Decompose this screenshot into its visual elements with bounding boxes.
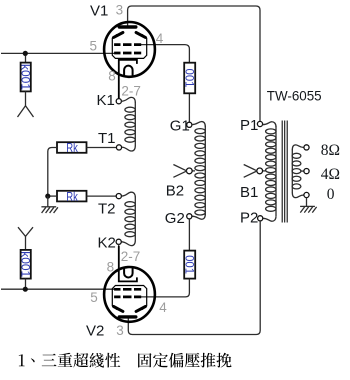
svg-text:2-7: 2-7	[121, 249, 141, 264]
node B1 tap terminal circle	[257, 168, 263, 174]
node K2 terminal circle	[116, 239, 121, 244]
svg-text:B2: B2	[166, 183, 184, 200]
inductor winding K1-T1	[121, 97, 135, 151]
wire Rk lower right lead to node T2	[87, 195, 117, 197]
svg-text:P2: P2	[240, 210, 258, 227]
node junction dot on V2 grid wire	[23, 287, 28, 292]
V2 beam plates	[114, 307, 146, 312]
node G2 terminal circle	[187, 214, 192, 219]
V1 cathode	[119, 60, 137, 99]
V2 plate (anode bar)	[119, 315, 136, 318]
ground (secondary 0 tap)	[300, 198, 317, 213]
op V1 tube envelope	[104, 22, 155, 77]
svg-text:001: 001	[182, 255, 196, 274]
transformer TW-6055 primary winding	[262, 122, 276, 221]
svg-text:G2: G2	[165, 210, 185, 227]
V1 heater	[124, 66, 133, 77]
V2 cathode	[119, 246, 137, 281]
V1 screen frame	[112, 34, 146, 58]
node T1 terminal circle	[116, 145, 121, 150]
svg-text:5: 5	[90, 290, 98, 305]
node secondary 0 terminal	[304, 192, 309, 197]
wire G2 down to resistor 100 lower	[188, 219, 190, 251]
resistor 100 (V1 screen stopper)	[182, 63, 196, 94]
node junction dot on V1 grid wire	[23, 51, 28, 56]
node T2 terminal circle	[116, 194, 121, 199]
svg-text:4Ω: 4Ω	[321, 166, 340, 183]
svg-text:2-7: 2-7	[121, 84, 141, 99]
wire Rk lower left lead to ground junction	[48, 195, 57, 197]
V2 grid dashes row pin4	[114, 296, 141, 299]
svg-text:4: 4	[159, 300, 167, 315]
svg-text:001: 001	[182, 69, 196, 88]
svg-text:Rk: Rk	[66, 190, 78, 204]
resistor Rk (lower cathode bias)	[57, 190, 87, 204]
V1 beam plates	[114, 33, 146, 38]
svg-text:k001: k001	[18, 251, 32, 277]
node B2 tap terminal circle	[186, 168, 192, 174]
svg-text:V1: V1	[90, 3, 108, 20]
resistor 100 (V2 screen stopper)	[182, 251, 196, 279]
node secondary 8 ohm terminal	[304, 145, 309, 150]
resistor 100k (upper bias resistor)	[18, 56, 32, 106]
transformer core	[282, 121, 287, 223]
wire Rk upper left lead down to ground junction	[48, 148, 57, 197]
svg-text:TW-6055: TW-6055	[267, 89, 322, 104]
arrow B1 tap pointer	[244, 165, 257, 178]
V2 grid dashes row pin5	[114, 288, 141, 291]
V1 grid dashes row pin5	[114, 52, 141, 55]
svg-text:K1: K1	[97, 92, 115, 109]
node secondary 4 ohm terminal	[304, 169, 309, 174]
V1 grid dashes row pin4	[114, 43, 141, 46]
V1 plate (anode bar)	[119, 25, 136, 28]
node K1 terminal circle	[116, 99, 121, 104]
wire Rk upper right lead to node T1	[87, 147, 117, 149]
svg-text:P1: P1	[240, 117, 258, 134]
svg-text:G1: G1	[170, 117, 190, 134]
svg-text:V2: V2	[86, 322, 104, 339]
arrow B2 tap pointer	[173, 165, 186, 178]
svg-text:Rk: Rk	[66, 141, 78, 155]
ground (below Rk junction)	[41, 196, 58, 213]
transformer secondary winding	[292, 145, 304, 198]
wire P2 to V2 plate pin3 (bottom rail)	[128, 221, 260, 335]
svg-text:8: 8	[107, 259, 115, 274]
op V2 tube envelope	[104, 267, 155, 322]
node G1 terminal circle	[187, 122, 192, 127]
svg-text:4: 4	[156, 31, 164, 46]
inductor winding G1-G2 with tap B2	[192, 122, 205, 220]
inductor winding T2-K2	[121, 192, 135, 245]
wire V1 plate pin3 to transformer P1 (top rail)	[128, 6, 260, 122]
node P2 terminal circle	[258, 216, 263, 221]
wire input grid V1 pin5 (left horizontal)	[1, 52, 115, 54]
svg-text:k001: k001	[18, 64, 32, 90]
node P1 terminal circle	[257, 121, 262, 126]
svg-text:T2: T2	[98, 201, 116, 218]
arrow to negative bias (lower)	[18, 227, 33, 236]
wire resistor to V2 pin4 screen	[141, 279, 190, 297]
wire K2 to V2 cathode	[118, 244, 120, 281]
wire K1 to V1 cathode	[118, 60, 120, 99]
svg-text:T1: T1	[98, 130, 116, 147]
svg-text:3: 3	[116, 323, 124, 338]
svg-text:5: 5	[90, 39, 98, 54]
svg-text:8: 8	[108, 69, 116, 84]
V2 screen frame	[112, 286, 146, 310]
resistor Rk (upper cathode bias)	[57, 141, 87, 155]
svg-text:K2: K2	[98, 234, 116, 251]
V2 heater	[124, 267, 133, 278]
svg-text:8Ω: 8Ω	[321, 142, 340, 159]
wire V1 pin4 screen to resistor 100	[141, 45, 190, 63]
wire input grid V2 pin5 (lower horizontal)	[1, 288, 115, 290]
wire V1 100 resistor to G1	[188, 93, 190, 122]
svg-text:0: 0	[327, 186, 335, 203]
caption: 1. triple ultra-linear fixed-bias push-pull	[19, 353, 232, 368]
svg-text:B1: B1	[240, 184, 258, 201]
resistor 100k (lower bias resistor)	[18, 236, 32, 289]
node junction dot at ground	[45, 194, 50, 199]
svg-text:3: 3	[116, 3, 124, 18]
arrow to negative bias (upper)	[18, 106, 34, 117]
